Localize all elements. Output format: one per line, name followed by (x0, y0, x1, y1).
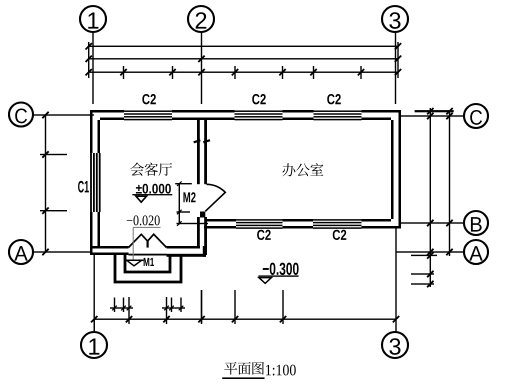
window C2 no.4 bottom wall (236, 219, 283, 221)
grid line C right (401, 115, 465, 116)
grid bubble axis-B right (464, 211, 488, 235)
grid line 1 bottom segment (94, 255, 95, 332)
exterior wall bottom of office, outer line (204, 226, 236, 229)
title underline (222, 377, 264, 379)
window C2 no.3 top wall (314, 110, 362, 112)
right outer dimension line (449, 110, 450, 256)
left dim extension tick C1 sill top (40, 154, 67, 155)
elevation text -0.020 (127, 215, 160, 225)
top dimension line 2 (axes) (89, 58, 398, 59)
entrance step outer outline (115, 255, 181, 282)
top dimension line 1 (overall) (89, 46, 398, 47)
exterior wall bottom of reception, outer line (93, 253, 129, 256)
label M1 (144, 258, 154, 266)
grid bubble axis-2 top (188, 6, 214, 32)
bottom dimension line (94, 319, 396, 320)
grid line A right (396, 251, 465, 252)
label M2 (183, 192, 195, 202)
grid bubble axis-1 bottom (81, 332, 107, 358)
window C2 no.1 top wall (124, 110, 172, 112)
grid line 1 top stub (92, 32, 93, 104)
window C1 left wall (90, 153, 92, 212)
exterior wall left, inner line (98, 120, 101, 153)
right inner dimension line (430, 108, 431, 287)
grid bubble axis-A right (464, 240, 488, 264)
label C2 top no.2 (252, 94, 266, 104)
partition wall tick marks (194, 140, 201, 142)
partition wall between rooms, left line (197, 118, 200, 185)
window C2 no.5 bottom wall (313, 219, 362, 221)
door M1 double-leaf symbol (129, 234, 148, 247)
door M2 jamb stub (200, 212, 205, 218)
top dimension extension line right (397, 42, 398, 78)
grid bubble axis-3 top (382, 6, 408, 32)
door M1 threshold line (129, 254, 167, 256)
title scale text (266, 365, 296, 376)
left dim extension tick C1 sill bottom (40, 210, 67, 211)
bottom dim corner left (94, 319, 95, 332)
grid bubble axis-3 bottom (382, 332, 408, 358)
top wall face extension line right (415, 110, 454, 112)
grid line A left (33, 251, 92, 252)
top dimension extension line left (88, 42, 89, 78)
elevation text 0.000 (136, 184, 171, 194)
elevation triangle at door M1 (127, 260, 142, 266)
grid bubble axis-1 top (80, 6, 106, 32)
label C1 left wall (78, 181, 89, 193)
grid line 3 top stub (395, 32, 396, 104)
top dimension line 3 (openings) (89, 72, 398, 73)
exterior wall right, inner line (391, 120, 394, 219)
bottom dim tall ticks (201, 290, 202, 324)
grid line 2 bottom stub (201, 290, 202, 324)
grid line C left (33, 114, 95, 115)
entrance step inner outline (125, 255, 170, 272)
top dim ticks on line 3 (123, 66, 124, 79)
bottom step dimension chain right (162, 307, 185, 308)
exterior wall left, outer line (90, 110, 93, 153)
exterior wall bottom of reception, inner line (93, 246, 129, 249)
label C2 top no.3 (327, 94, 341, 104)
exterior wall top, outer line (90, 110, 124, 113)
grid line B right (401, 222, 465, 223)
reception bottom wall end cap (203, 246, 206, 257)
grid bubble axis-C left (9, 103, 33, 127)
exterior wall top, inner line (100, 118, 124, 121)
door M2 opening dimension line (179, 183, 180, 225)
grid bubble axis-A left (9, 240, 33, 264)
grid line 2 top stub (201, 32, 202, 104)
door M2 swing arc and leaf (205, 184, 225, 211)
exterior wall bottom of office, inner line (207, 219, 236, 222)
elevation text -0.300 (263, 263, 299, 275)
grid bubble axis-C right (464, 104, 488, 128)
right dim step extension lines (411, 255, 437, 256)
left dimension line (45, 115, 46, 252)
partition wall between rooms, right line (204, 118, 207, 185)
room label office (ban gong shi) (282, 163, 323, 176)
grid line 3 bottom segment (395, 229, 396, 333)
window C2 no.2 top wall (235, 110, 283, 112)
label C2 top no.1 (142, 94, 156, 104)
label C2 bottom no.5 (333, 230, 347, 240)
label C2 bottom no.4 (257, 230, 271, 240)
title pingmiantu (floor plan) (224, 362, 264, 375)
exterior wall right, outer line (399, 110, 402, 229)
bottom step dimension chain left (110, 307, 133, 308)
room label reception (hui ke ting) (130, 163, 172, 176)
